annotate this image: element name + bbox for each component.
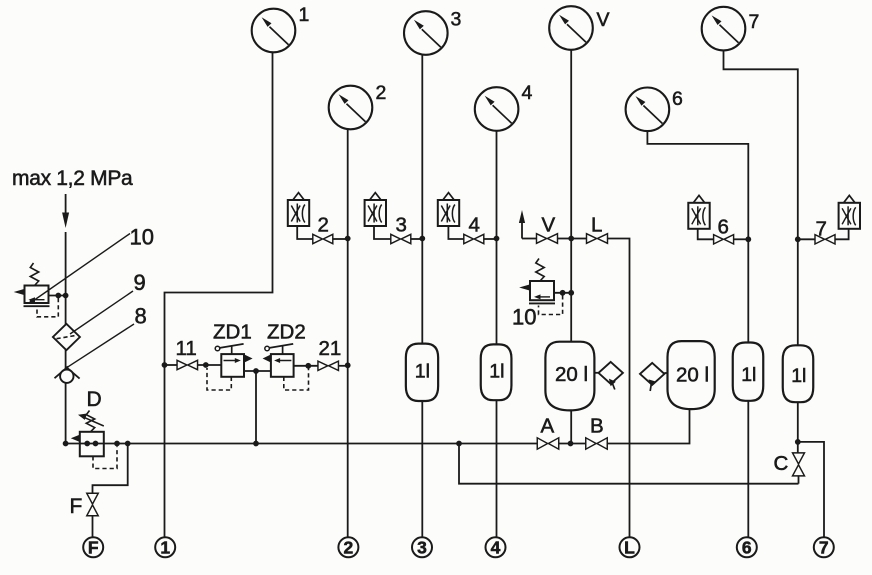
shut-off valve L — [587, 234, 608, 244]
svg-text:20 l: 20 l — [676, 364, 709, 387]
node: column 4 valve tap — [494, 236, 500, 242]
svg-text:8: 8 — [135, 304, 147, 329]
wire: left main line — [65, 232, 67, 444]
port 2 — [338, 537, 358, 557]
wire: valve 2 to column 2 — [333, 238, 348, 240]
node: ZD branch bus junction — [253, 441, 259, 447]
svg-text:D: D — [87, 388, 102, 411]
svg-text:3: 3 — [451, 9, 462, 31]
filter/silencer 3 — [365, 193, 386, 226]
gauge 1 — [252, 9, 296, 53]
svg-text:4: 4 — [522, 82, 533, 104]
wire: valve F to port F — [92, 516, 94, 538]
wire: valve 7 to column 7 — [798, 238, 815, 240]
tank 1l (column 7) — [783, 345, 814, 402]
wire: bypass to port 7 — [798, 442, 824, 537]
node: ZD mid branch — [253, 368, 259, 374]
relief valve 10 (at column V) — [519, 259, 555, 304]
svg-text:2: 2 — [318, 214, 329, 237]
svg-text:L: L — [591, 214, 602, 237]
wire: column 7 lower — [797, 402, 799, 453]
shut-off valve 3 — [391, 234, 411, 243]
svg-text:6: 6 — [742, 537, 752, 557]
gauge 3 — [404, 11, 448, 55]
gauge 7 — [702, 7, 746, 51]
shut-off valve F — [87, 493, 99, 516]
port 4 — [486, 537, 506, 557]
coupling diamond (left of second 20l tank) — [640, 363, 668, 391]
wire: valve 11 to ZD1 — [198, 364, 222, 366]
wire: filter 7 to valve 7 — [835, 229, 848, 240]
node: column 2 tap — [345, 362, 351, 368]
node: A-B junction — [568, 441, 574, 447]
label 9 leader line — [70, 291, 133, 334]
tank 20 l (second) — [668, 341, 715, 409]
filter/silencer 6 — [688, 195, 709, 228]
node: bus dots at D — [63, 441, 69, 447]
node: column 6 valve tap — [745, 236, 751, 242]
wire: filter 4 to valve 4 — [448, 226, 463, 239]
wire: bus valve B to 20l tank riser — [607, 409, 690, 444]
wire: column1 to valve 11 — [165, 364, 178, 366]
svg-text:1l: 1l — [415, 361, 430, 383]
svg-text:L: L — [624, 537, 635, 557]
pilot line (dashed) relief 10 right — [539, 295, 563, 314]
node: C junction — [795, 439, 801, 445]
svg-text:F: F — [70, 495, 83, 518]
wire: gauge 7 jog to column 7 — [724, 50, 798, 346]
pilot line (dashed) regulator D — [93, 447, 117, 469]
wire: filter 2 to valve 2 — [297, 226, 312, 239]
wire: ZD2 outlet to valve 21 — [294, 365, 318, 367]
wire: relief 10 to column V — [554, 292, 571, 294]
wire: column 3 — [421, 55, 423, 538]
svg-text:10: 10 — [512, 305, 536, 330]
svg-text:ZD2: ZD2 — [267, 321, 306, 344]
shut-off valve 21 — [318, 361, 339, 370]
wire: A-B junction link — [559, 443, 587, 445]
wire: valve 4 to column 4 — [484, 238, 497, 240]
svg-text:B: B — [590, 415, 604, 438]
svg-text:11: 11 — [176, 337, 197, 360]
wire: valve 3 to column 3 — [411, 238, 423, 240]
wire: column V tank to bus — [570, 410, 572, 443]
wire: drop to valve F — [93, 444, 128, 494]
pilot line (dashed) ZD2 — [284, 369, 309, 391]
svg-text:1l: 1l — [791, 365, 806, 387]
label 8 leader line — [68, 324, 134, 367]
filter/silencer 7 — [839, 195, 860, 228]
shut-off valve B — [586, 438, 608, 449]
gauge 6 — [626, 88, 670, 132]
node: column V valve tap — [568, 236, 574, 242]
tank 1l (column 4) — [481, 344, 512, 400]
port L — [620, 537, 640, 557]
svg-text:2: 2 — [376, 82, 387, 104]
svg-text:1: 1 — [299, 4, 310, 26]
gauge V — [549, 6, 593, 50]
port 3 — [412, 537, 432, 557]
svg-text:max 1,2 MPa: max 1,2 MPa — [12, 167, 133, 190]
node: column 2 valve tap — [345, 236, 351, 242]
node: relief 10 taps — [560, 290, 566, 296]
port 6 — [737, 537, 757, 557]
label 10 leader line — [32, 234, 131, 303]
wire: ZD branch down to bus — [255, 371, 257, 444]
shut-off valve V — [537, 234, 558, 244]
wire: gauge 6 jog to column 6 — [647, 131, 748, 343]
filter/silencer 4 — [438, 193, 459, 226]
svg-text:1l: 1l — [489, 361, 504, 383]
tank 1l (column 3) — [406, 344, 438, 401]
pilot line (dashed) ZD1 — [207, 368, 231, 390]
pressure regulator ZD2 — [263, 344, 294, 377]
svg-text:1: 1 — [160, 537, 170, 557]
svg-text:ZD1: ZD1 — [213, 321, 252, 344]
wire: valve L jog to column L — [608, 239, 630, 538]
svg-text:2: 2 — [344, 537, 354, 557]
wire: filter 3 to valve 3 — [374, 226, 391, 239]
svg-text:3: 3 — [396, 214, 407, 237]
svg-text:6: 6 — [718, 216, 729, 239]
tank 20 l (column V) — [545, 342, 594, 411]
shut-off valve A — [537, 438, 559, 449]
svg-text:F: F — [88, 537, 99, 557]
tank 1l (column 6) — [733, 343, 764, 401]
svg-text:7: 7 — [816, 218, 827, 241]
vent arrow (valve V exhaust) — [519, 210, 525, 239]
wire: column V upper — [570, 50, 572, 343]
shut-off valve 11 — [177, 360, 198, 369]
shut-off valve C (vertical) — [793, 453, 805, 476]
wire: column 4 — [496, 131, 498, 538]
wire: valve 6 to column 6 — [734, 238, 749, 240]
shut-off valve 6 — [714, 235, 734, 244]
wire: relief valve 10 outlet — [49, 295, 66, 297]
wire: ZD1 to ZD2 — [244, 370, 271, 372]
svg-text:V: V — [542, 214, 556, 237]
wire: valve C to return line — [798, 476, 800, 484]
node: ZD1 inlet — [203, 362, 209, 368]
gauge 2 — [329, 86, 373, 130]
svg-text:4: 4 — [491, 537, 501, 557]
node: bus branch junction — [456, 441, 462, 447]
wire: main bus to valve A — [66, 443, 538, 445]
node: column 3 valve tap — [419, 236, 425, 242]
svg-text:4: 4 — [469, 214, 480, 237]
wire: gauge 1 jog to column 1 — [165, 52, 273, 537]
port 7 — [814, 537, 834, 557]
wire: valve 21 to column 2 — [339, 365, 348, 367]
svg-text:1l: 1l — [741, 364, 756, 386]
pilot line (dashed) relief 10 left — [37, 298, 58, 317]
svg-text:10: 10 — [130, 225, 154, 250]
wire: column 2 — [347, 129, 349, 537]
filter/silencer 2 — [288, 193, 309, 226]
port 1 — [155, 537, 175, 557]
svg-text:21: 21 — [319, 337, 342, 360]
svg-text:3: 3 — [417, 537, 427, 557]
shut-off valve 2 — [313, 234, 333, 243]
port F — [83, 537, 103, 557]
svg-text:V: V — [597, 9, 610, 31]
pressure regulator ZD1 — [215, 344, 244, 377]
wire: return line to bus branch — [459, 444, 799, 484]
svg-text:7: 7 — [749, 11, 760, 33]
svg-text:6: 6 — [672, 88, 683, 110]
node: column 7 valve tap — [795, 236, 801, 242]
svg-text:9: 9 — [134, 270, 146, 295]
node: column1 tap — [162, 362, 168, 368]
coupling diamond (right of 20l tank) — [594, 362, 623, 390]
node: ZD2 outlet — [305, 363, 311, 369]
svg-text:C: C — [774, 452, 789, 475]
wire: valve V to column V — [558, 238, 572, 240]
shut-off valve 4 — [464, 234, 484, 243]
svg-text:A: A — [541, 415, 555, 438]
wire: column V to valve L — [571, 238, 586, 240]
ZD1 flow arrow — [245, 355, 253, 363]
supply input arrow — [62, 194, 69, 228]
filter 9 (diamond) — [53, 324, 80, 350]
wire: filter 6 to valve 6 — [698, 229, 714, 240]
wire: column 6 lower — [747, 400, 749, 537]
gauge 4 — [475, 87, 519, 131]
check valve 8 — [55, 366, 80, 383]
pressure regulator D — [71, 411, 104, 457]
shut-off valve 7 — [815, 235, 835, 244]
svg-text:7: 7 — [819, 537, 829, 557]
node: relief 10 tap — [55, 293, 61, 299]
wire: vent to valve V — [522, 238, 537, 240]
svg-text:20 l: 20 l — [555, 363, 588, 386]
relief valve 10 (left) — [14, 263, 50, 306]
